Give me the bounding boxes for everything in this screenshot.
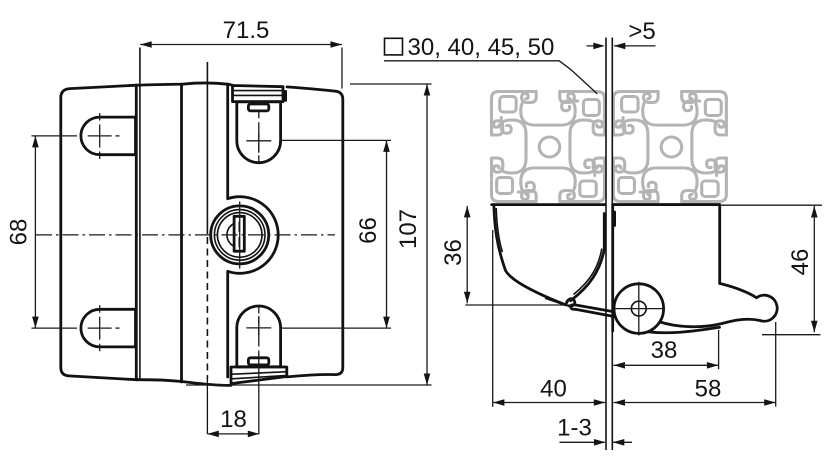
key rotor [227,222,238,247]
body edge line [180,84,183,382]
dim >5 [587,18,656,49]
svg-text:58: 58 [695,376,722,403]
thin body line [139,48,141,381]
dim 71.5 [140,17,342,89]
top notch [248,104,268,111]
gap line right [611,38,613,451]
dim 58 [614,322,776,407]
hook [659,283,778,326]
dim 36 [440,206,566,305]
mounting tab top-left [81,117,136,155]
svg-text:68: 68 [6,219,33,246]
svg-text:30, 40, 45, 50: 30, 40, 45, 50 [408,34,555,61]
surface extension [720,204,822,206]
mounting tab bottom-left [81,309,136,347]
pivot crosshair [616,282,663,336]
pivot circle [614,284,664,334]
latch arm [571,305,616,317]
mounting tab top-right [237,102,281,163]
mounting tab bottom-right [237,306,281,367]
lock vertical centerline [239,202,241,269]
lock ring circles [214,210,265,261]
handle panel right edge [135,85,138,380]
handle panel outline [61,85,137,380]
mounting surface right [613,203,720,206]
handle inner line [496,208,502,252]
svg-text:18: 18 [220,406,247,433]
leader label square 30,40,45,50 [384,34,597,94]
crosshair bottom-left hole [32,305,120,351]
body top edge [137,83,233,85]
svg-text:36: 36 [440,239,467,266]
svg-text:>5: >5 [628,18,655,45]
main horizontal centerline [36,234,335,236]
svg-text:66: 66 [355,217,382,244]
lock outer circle [211,206,269,264]
handle outer profile [494,205,566,305]
striker arc [571,248,605,301]
body top edge right + right edge + bottom right [287,87,343,377]
svg-text:40: 40 [540,376,567,403]
dim 38 [614,330,719,369]
svg-text:107: 107 [395,209,422,249]
dim 107 [186,84,432,385]
crosshair top-right hole [246,111,391,162]
striker jaw left [603,214,606,248]
body right jaw [613,212,616,226]
handle lip lower line [545,298,572,307]
profile right [613,92,726,202]
pivot inner circle [631,301,646,316]
mounting surface left [492,203,606,206]
striker arc inner [574,249,602,295]
crosshair bottom-right hole [246,307,391,434]
dim 18 [207,406,259,437]
top clamp block [233,86,284,102]
svg-text:46: 46 [787,249,814,276]
svg-text:38: 38 [651,337,678,364]
body bottom edge left of clamp [137,380,232,386]
bottom clamp block [231,367,287,384]
svg-text:71.5: 71.5 [223,17,270,44]
dim 46 [762,206,821,335]
crosshair top-left hole [32,113,120,159]
gap line left [605,38,607,451]
bottom notch [248,358,268,365]
profile left [492,92,605,202]
dim 68 [6,136,39,328]
handle beak [566,299,575,306]
key slot [234,216,244,251]
lock bulge [228,85,279,377]
latch underside low line [649,327,720,332]
dim 40 [493,230,606,407]
dim 66 [355,140,390,328]
latch body top+right [613,205,720,284]
plate edge line [206,62,208,434]
latch body edge left [611,205,614,331]
dim 1-3 [557,415,632,446]
svg-text:1-3: 1-3 [557,415,592,442]
